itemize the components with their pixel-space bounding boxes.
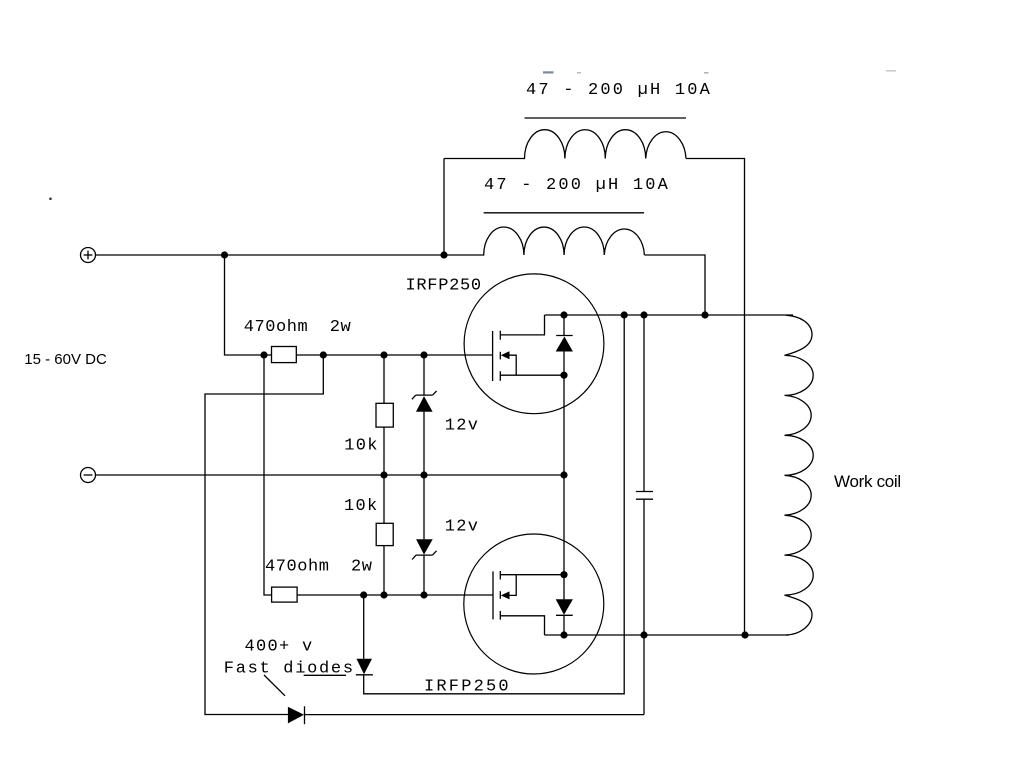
node gate2 Z2 bbox=[420, 591, 427, 598]
zener Z1 bbox=[412, 355, 437, 475]
inductor L2 core bar bbox=[484, 212, 644, 214]
work coil bbox=[785, 315, 814, 635]
node top rail FD1 branch bbox=[621, 311, 628, 318]
pointer line bbox=[264, 675, 285, 696]
transistor Q2 IRFP250 bbox=[464, 534, 604, 674]
wire FD1 to Q1 drain branch bbox=[364, 315, 625, 694]
svg-text:10k: 10k bbox=[344, 437, 379, 456]
wire negative rail bbox=[96, 474, 565, 476]
capacitor C1 bbox=[636, 315, 653, 635]
node gate2 R4 bbox=[380, 591, 387, 598]
transistor Q1 IRFP250 bbox=[464, 274, 604, 414]
wire bottom rail bbox=[545, 634, 790, 636]
wire positive rail bbox=[96, 254, 445, 256]
resistor R1 470ohm 2w bbox=[272, 347, 297, 363]
svg-text:470ohm 2w: 470ohm 2w bbox=[265, 557, 373, 576]
svg-text:IRFP250: IRFP250 bbox=[406, 277, 482, 296]
inductor L1 bbox=[444, 130, 686, 159]
svg-text:47 - 200 µH 10A: 47 - 200 µH 10A bbox=[526, 81, 712, 100]
wire top rail bbox=[545, 314, 794, 316]
node Q2 source bbox=[560, 571, 567, 578]
diode FD2 bbox=[288, 706, 644, 724]
node top rail L2 bbox=[701, 311, 708, 318]
node negative rail Z1 bbox=[420, 471, 427, 478]
wire R4 bottom lead bbox=[383, 546, 385, 595]
node gate1 b bbox=[380, 351, 387, 358]
wire negative rail to Q2 source bbox=[563, 475, 565, 575]
diode FD1 bbox=[356, 595, 373, 675]
wire positive tap down to R1 bbox=[225, 255, 272, 355]
node negative rail Q1 source bbox=[560, 471, 567, 478]
node top rail Q1 drain bbox=[560, 311, 567, 318]
terminal - bbox=[81, 468, 96, 483]
inductor L2 bbox=[444, 227, 644, 255]
wire FD2 up to bottom rail bbox=[643, 635, 645, 715]
node bottom rail L1 bbox=[741, 631, 748, 638]
node positive/L1 junction bbox=[440, 251, 447, 258]
node gate1 a bbox=[320, 351, 327, 358]
resistor R4 10k bbox=[376, 523, 393, 545]
svg-text:400+ v: 400+ v bbox=[245, 638, 314, 657]
wire L2 right lead down to top rail bbox=[644, 255, 705, 315]
node Q1 source bbox=[560, 372, 567, 379]
svg-text:470ohm 2w: 470ohm 2w bbox=[244, 318, 352, 337]
node negative rail R3 bbox=[380, 471, 387, 478]
wire R4 top lead bbox=[383, 475, 385, 523]
stray mark bbox=[49, 198, 52, 201]
wire Q1 source to negative rail bbox=[563, 375, 565, 475]
wire gate1 cross-coupling to FD2 bbox=[205, 355, 323, 715]
wire R3 bottom lead bbox=[383, 427, 385, 475]
stray artifact dashes bbox=[543, 70, 896, 74]
zener Z2 bbox=[412, 475, 436, 595]
resistor R2 470ohm 2w bbox=[272, 587, 298, 602]
node gate2 FD1 bbox=[360, 591, 367, 598]
diode Q2 body bbox=[556, 575, 573, 635]
node bottom rail capacitor bbox=[640, 631, 647, 638]
wire R2 right / gate2 row bbox=[297, 594, 493, 596]
wire R3 top lead bbox=[383, 355, 385, 403]
inductor L1 core bar bbox=[525, 117, 687, 119]
svg-text:15 - 60V DC: 15 - 60V DC bbox=[24, 351, 107, 368]
label underline bbox=[304, 674, 346, 676]
svg-text:10k: 10k bbox=[344, 497, 379, 516]
wire L1 right lead down to bottom rail bbox=[686, 159, 745, 636]
wire left column to R2 bbox=[264, 355, 272, 595]
node top rail capacitor bbox=[640, 311, 647, 318]
svg-text:47 - 200 µH 10A: 47 - 200 µH 10A bbox=[484, 176, 670, 195]
svg-text:12v: 12v bbox=[445, 518, 480, 537]
node gate1 c bbox=[420, 351, 427, 358]
node bottom rail Q2 drain bbox=[560, 631, 567, 638]
wire R1 right / gate1 row bbox=[296, 354, 492, 356]
diode Q1 body bbox=[556, 315, 573, 375]
resistor R3 10k bbox=[376, 403, 393, 427]
node positive rail tap bbox=[221, 251, 228, 258]
terminal + bbox=[81, 248, 96, 263]
wire L1 left leg bbox=[443, 159, 445, 256]
svg-text:12v: 12v bbox=[445, 417, 480, 436]
node R1 left bbox=[260, 351, 267, 358]
svg-text:Work coil: Work coil bbox=[834, 472, 901, 491]
